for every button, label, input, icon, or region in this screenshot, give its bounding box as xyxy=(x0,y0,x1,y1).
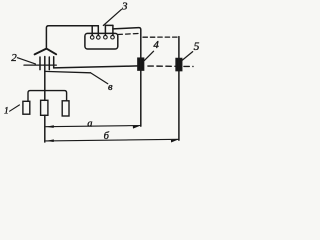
dashed axis line from box to marker 5 xyxy=(118,33,141,34)
center reference line below sensor 2 xyxy=(44,115,46,142)
dimension line a xyxy=(46,126,141,127)
terminal circle 3 xyxy=(104,35,108,39)
svg-text:3: 3 xyxy=(121,1,128,13)
leader for label v xyxy=(91,73,108,84)
dimension a left arrowhead xyxy=(46,125,54,128)
leader for label 1 xyxy=(10,105,20,111)
sensor 2 chevron xyxy=(35,49,57,55)
svg-text:2: 2 xyxy=(11,52,17,64)
sensor 2 plate 4 xyxy=(53,57,55,68)
dashed wire from marker 4 to marker 5 and beyond xyxy=(144,65,193,68)
wire jumper stub to terminal circle 2 xyxy=(97,26,99,36)
svg-text:б: б xyxy=(104,131,110,142)
dimension line b xyxy=(46,139,179,141)
terminal circle 4 xyxy=(111,35,115,39)
wire through marker 4 down to dimension a xyxy=(140,58,142,126)
wire from box to marker 4 xyxy=(113,28,141,59)
terminal circle 1 xyxy=(90,36,94,40)
marker 5 xyxy=(176,59,182,71)
main wire from sensor 2 to marker 4 xyxy=(54,66,139,68)
wire jumper over terminals 3-4 xyxy=(105,24,113,26)
wire labelled v xyxy=(45,71,91,72)
dashed axis line from marker 4 to marker 5 xyxy=(143,36,178,38)
leader for label 3 xyxy=(103,9,121,25)
sensor 2 plate 3 xyxy=(48,57,50,70)
suspension weight 1b xyxy=(41,100,48,115)
terminal circle 2 xyxy=(97,36,101,40)
svg-text:1: 1 xyxy=(4,106,9,116)
dimension b right arrowhead xyxy=(171,139,179,142)
wire from sensor 2 up and right to terminal box 3 xyxy=(46,26,98,49)
wire jumper stub to terminal circle 1 xyxy=(91,26,93,36)
suspension weight 1c xyxy=(62,101,69,116)
marker 4 xyxy=(138,58,144,70)
wire down to marker 5 xyxy=(178,37,180,59)
leader for label 4 xyxy=(144,51,153,60)
dimension a right arrowhead xyxy=(133,126,141,129)
dimension b left arrowhead xyxy=(46,139,54,142)
suspension weight 1a xyxy=(23,101,30,114)
svg-text:в: в xyxy=(108,82,113,93)
fork bar to suspensions 1 xyxy=(28,91,67,102)
wire stub to terminal circle 3 xyxy=(104,25,106,35)
sensor 2 lead wire xyxy=(24,64,56,66)
wire stub to terminal circle 4 xyxy=(112,25,114,35)
sensor 2 plate 1 xyxy=(39,57,41,70)
svg-text:а: а xyxy=(87,118,92,129)
terminal box U3 xyxy=(85,33,118,49)
svg-text:5: 5 xyxy=(194,41,200,53)
leader for label 5 xyxy=(181,52,192,61)
svg-text:4: 4 xyxy=(153,39,159,51)
sensor 2 plate 2 and center line down to fork xyxy=(44,57,46,101)
leader for label 2 xyxy=(17,58,35,64)
wire through marker 5 down to dimension b xyxy=(178,59,180,141)
